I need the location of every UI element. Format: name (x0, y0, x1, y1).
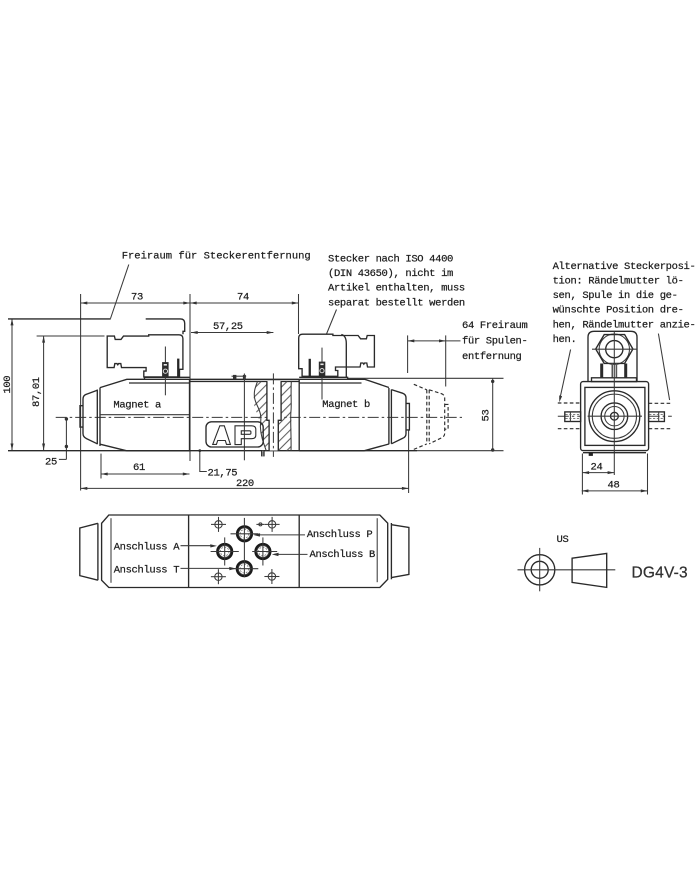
leader right from instruction text (658, 334, 669, 400)
svg-text:tion: Rändelmutter lö-: tion: Rändelmutter lö- (553, 276, 684, 288)
dimension 57,25 (191, 321, 273, 334)
port B (252, 537, 277, 565)
phantom connector position dashes right (649, 403, 671, 428)
left manual override plug (565, 412, 581, 422)
manual override plug hidden lines (566, 414, 664, 418)
broken-out section wavy break line (254, 381, 266, 450)
end view locating pin (589, 453, 593, 456)
hex inner circle (606, 341, 623, 358)
magnet a coil body outline (100, 379, 190, 451)
dimension 64 Freiraum fuer Spulenentfernung (408, 320, 528, 387)
svg-text:Anschluss A: Anschluss A (114, 542, 181, 554)
P/T vertical crosshair line (243, 518, 245, 577)
magnet b cap/coil joint lines (388, 388, 390, 444)
phantom removed coil (dashed) (414, 384, 448, 449)
svg-text:Alternative Steckerposi-: Alternative Steckerposi- (553, 261, 696, 273)
connector a second pin (177, 359, 179, 378)
leader from Freiraum label to clearance envelope (111, 265, 129, 319)
connector a (DIN plug, side view) (107, 335, 183, 377)
magnet b end cap (391, 390, 406, 444)
symbol crosshair (518, 569, 616, 571)
locating pin hole (256, 523, 264, 526)
dimension 48 (582, 454, 648, 495)
svg-text:73: 73 (131, 292, 143, 304)
magnet a coil leader line (164, 347, 166, 396)
svg-text:(DIN 43650), nicht im: (DIN 43650), nicht im (328, 268, 453, 280)
main centerline (56, 416, 462, 418)
top studs on central body (232, 375, 247, 377)
connector b block/face divider (341, 335, 346, 378)
AP logo plate (206, 422, 263, 447)
magnet a end cap (83, 390, 97, 444)
svg-text:24: 24 (591, 462, 603, 474)
end view vertical centerline (613, 332, 615, 476)
bottom view body outline (102, 515, 388, 588)
svg-text:61: 61 (133, 462, 145, 474)
extension line x=80.6 (left end of valve) (80, 294, 82, 491)
magnet b end nub (406, 403, 409, 430)
AP logo letter A (213, 426, 231, 445)
svg-text:25: 25 (45, 457, 57, 469)
dimension 87,01 (vertical) (31, 336, 105, 450)
bottom view inner face lines (110, 518, 112, 583)
leader left from instruction text (560, 350, 571, 400)
note: Stecker nach ISO 4400 text block (328, 253, 465, 309)
bottom view left outer face line (97, 523, 99, 580)
bolt hole top-left (211, 517, 226, 532)
svg-text:Anschluss T: Anschluss T (114, 564, 180, 576)
end view horizontal crosshair (588, 415, 642, 417)
bolt hole centerline (272, 373, 274, 457)
svg-text:220: 220 (236, 478, 254, 490)
symbol truncated cone (572, 553, 607, 587)
bottom view right cap (391, 525, 409, 578)
connector b second pin (309, 359, 311, 377)
dimension 24 (582, 454, 614, 495)
dimension 21,75 leader (198, 449, 237, 479)
magnet a coil inner top line (129, 382, 190, 384)
magnet b coil inner top line (299, 382, 361, 384)
dimension 74 (190, 292, 299, 305)
main view bottom line (body bottom + extension both sides) (8, 450, 417, 452)
svg-text:64 Freiraum: 64 Freiraum (462, 320, 528, 332)
svg-text:sen, Spule in die ge-: sen, Spule in die ge- (553, 290, 678, 302)
center hole (611, 412, 619, 420)
svg-text:Anschluss B: Anschluss B (310, 549, 376, 561)
svg-text:53: 53 (480, 410, 492, 422)
svg-text:entfernung: entfernung (462, 351, 522, 363)
connector a terminal screw (162, 362, 169, 377)
connector b (DIN plug, side view, mirrored copy of connector a) (299, 334, 375, 376)
svg-text:hen.: hen. (553, 334, 577, 346)
knurled nut circle (599, 334, 629, 364)
tower pins (600, 364, 603, 378)
bolt hole bottom-right (264, 569, 279, 584)
tower crosshair (592, 348, 637, 350)
svg-text:Magnet b: Magnet b (322, 399, 370, 411)
port T (230, 561, 258, 576)
dimension 53 (vertical with dots) (347, 378, 504, 451)
svg-text:separat bestellt werden: separat bestellt werden (328, 297, 465, 309)
dimension 220 (81, 430, 409, 493)
port P (231, 526, 259, 541)
svg-text:hen, Rändelmutter anzie-: hen, Rändelmutter anzie- (553, 319, 696, 331)
central/magnet b division line (298, 379, 300, 451)
connector tower outline (588, 331, 637, 381)
bottom view division lines (188, 515, 190, 588)
magnet a armature line (100, 414, 190, 416)
connector b terminal screw (319, 362, 326, 377)
svg-text:Anschluss P: Anschluss P (307, 529, 373, 541)
end view inner square (585, 387, 645, 445)
leader from Stecker note to connector b (326, 310, 336, 335)
svg-text:Magnet a: Magnet a (113, 400, 161, 412)
bolt hole bottom-left (211, 569, 226, 584)
magnet b coil body outline (299, 379, 389, 451)
bottom lip of square (583, 452, 646, 454)
dimension 73 (81, 292, 190, 305)
tower base plate (592, 378, 637, 382)
end view horizontal centerline extensions (558, 415, 581, 417)
nut circles (601, 403, 628, 430)
central body top lines (190, 378, 300, 380)
symbol circles (525, 555, 555, 585)
end view outer square (581, 382, 649, 451)
bolt hole walls (267, 381, 281, 450)
svg-text:Stecker nach ISO 4400: Stecker nach ISO 4400 (328, 253, 453, 265)
svg-text:US: US (557, 534, 569, 546)
bolt hole top-right (265, 517, 280, 532)
locating pin under body (261, 451, 265, 457)
dimension 100 (vertical, left) (2, 319, 14, 451)
section right boundary (290, 381, 293, 450)
svg-text:DG4V-3: DG4V-3 (632, 564, 688, 581)
extension line x=190 (73/74 divider) (189, 294, 191, 461)
magnet b top mounting plate (299, 377, 347, 379)
coil circles (589, 391, 640, 442)
bottom view right outer face line (390, 523, 392, 579)
svg-text:21,75: 21,75 (208, 468, 238, 480)
svg-text:74: 74 (237, 292, 249, 304)
svg-text:48: 48 (608, 480, 620, 492)
extension line x=298.5 (74 right) (298, 294, 300, 334)
svg-text:57,25: 57,25 (213, 321, 243, 333)
right manual override plug (649, 412, 665, 422)
hex nut (596, 335, 633, 364)
bottom view left cap (80, 523, 98, 580)
phantom connector position dashes left (558, 403, 581, 429)
magnet a top mounting plate (145, 377, 190, 379)
white mask for bolt hole channel (267, 381, 280, 420)
AP logo letter P (235, 426, 256, 445)
port P vertical line (243, 374, 245, 461)
svg-text:87,01: 87,01 (31, 377, 43, 407)
svg-text:wünschte Position dre-: wünschte Position dre- (553, 305, 684, 317)
svg-text:für Spulen-: für Spulen- (462, 336, 527, 348)
note: Alternative Steckerposition text block (553, 261, 696, 346)
magnet a body/center body division line (189, 379, 191, 451)
magnet a left nub (80, 406, 83, 427)
magnet b coil leader line (321, 348, 323, 400)
dimension 61 (101, 454, 190, 479)
magnet a cap/coil joint lines (96, 390, 98, 445)
svg-text:Artikel enthalten, muss: Artikel enthalten, muss (328, 283, 465, 295)
port A (211, 537, 239, 565)
dimension 25 (vertical with dots) (45, 417, 68, 468)
svg-text:Freiraum für Steckerentfernung: Freiraum für Steckerentfernung (122, 251, 311, 263)
svg-text:100: 100 (2, 376, 14, 394)
